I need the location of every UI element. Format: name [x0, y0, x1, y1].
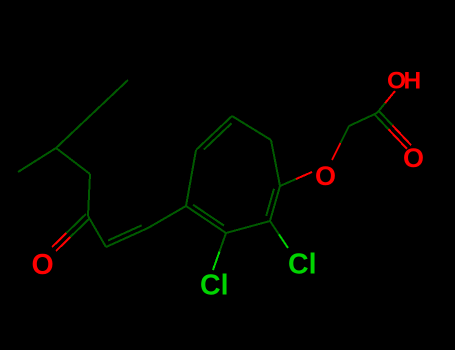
bond CH to terminal CH3: [18, 148, 56, 172]
vinyl C=C bond main line: [106, 228, 148, 247]
bond carbonyl C to CH2: [88, 174, 90, 216]
svg-text:O: O: [315, 161, 336, 191]
wire ring bond C1-C2 (R-BR): [270, 186, 280, 221]
svg-text:H: H: [404, 68, 422, 95]
svg-text:Cl: Cl: [200, 270, 229, 302]
ketone C=O line 1 carbon half: [66, 214, 86, 233]
carboxyl C=O line 1 carbon half: [375, 115, 388, 129]
bond CH2 to CH branch: [56, 148, 90, 174]
C-OH bond carbon half: [377, 103, 385, 113]
bond ring-C4a to vinyl CH: [148, 206, 186, 228]
O-CH2 bond oxygen half: [332, 143, 341, 160]
C3-Cl bond chlorine half: [213, 252, 220, 271]
svg-text:Cl: Cl: [288, 249, 317, 281]
C1-O ether bond oxygen half: [296, 172, 312, 179]
ketone C=O line 1 oxygen half: [52, 233, 66, 247]
ketone C=O line 2 carbon half: [70, 218, 90, 237]
vinyl C=C inner line: [108, 225, 142, 240]
double bond inner line C1=C2: [266, 189, 274, 216]
wire ring bond C3-C4 (B-BL): [186, 206, 226, 233]
double bond inner line C5=C6: [204, 123, 232, 149]
bond vinyl CH to carbonyl C: [88, 216, 106, 247]
wire ring bond C5-C6 (TL-T): [196, 116, 232, 150]
double bond inner line C3=C4: [193, 205, 224, 226]
svg-text:O: O: [32, 249, 54, 281]
C2-Cl bond carbon half: [270, 221, 279, 235]
C-OH bond oxygen half: [385, 91, 395, 103]
C2-Cl bond chlorine half: [279, 235, 288, 249]
C1-O ether bond carbon half: [280, 179, 296, 186]
carboxyl C=O line 2 oxygen half: [393, 125, 412, 145]
ketone C=O line 2 oxygen half: [56, 237, 70, 251]
wire ring bond C2-C3 (BR-B): [226, 221, 270, 233]
svg-text:O: O: [403, 143, 424, 173]
wire ring bond C7-C1 (TR-R): [271, 140, 280, 186]
carboxyl C=O line 2 carbon half: [379, 111, 393, 125]
bond CH2 to carboxyl C: [349, 113, 377, 126]
wire ring bond C6-C7 (T-TR): [232, 116, 271, 140]
wire ring bond C4a-C5 (BL-TL): [186, 150, 196, 206]
bond CH to ethyl CH3 tip: [56, 80, 128, 148]
carboxyl C=O line 1 oxygen half: [388, 129, 407, 149]
O-CH2 bond carbon half: [341, 126, 350, 143]
C3-Cl bond carbon half: [220, 233, 227, 252]
